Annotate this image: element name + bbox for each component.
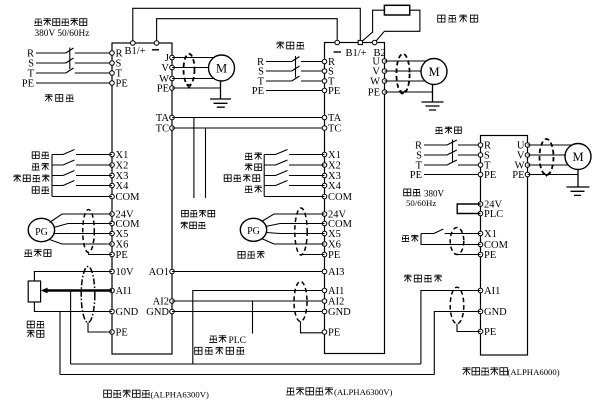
label: big roller inverter (ALPHA6300V) (286, 388, 295, 395)
shield ellipse on M2 cable (396, 54, 409, 94)
switch S21 (forward) to U2 X1 (264, 150, 324, 155)
terminal - (U1 top) (154, 41, 159, 46)
terminal AI1 (U1 left, y=290.5) (110, 288, 115, 293)
svg-text:V: V (161, 63, 169, 74)
wire: alarm contact output drop 1 (193, 118, 195, 199)
terminal V (U3 right, y=155) (525, 153, 530, 158)
terminal PE (U1 right, y=88) (170, 86, 175, 91)
bottom bus 1 (speed signal AI1) (71, 363, 421, 365)
terminal COM (U1 left, y=196.5) (110, 194, 115, 199)
terminal X1 (U1 left, y=154.5) (110, 152, 115, 157)
terminal B2 (U2 top) (372, 40, 377, 45)
inverter U3 (ALPHA6000 cloth output) outline (481, 136, 528, 356)
wire: QF2 PE straight (266, 90, 325, 92)
switch S12 (reverse) to U1 X2 (52, 160, 112, 165)
circuit breaker QF3 pole T (424, 160, 481, 165)
wire: pot wiper to U1 AI1 (thick) (45, 289, 112, 292)
switch S14 (reset) to U1 X4 (52, 181, 112, 186)
motor M3 (565, 144, 591, 170)
svg-text:X5: X5 (116, 229, 129, 240)
wire: U2 U-phase to motor M2 (385, 60, 427, 62)
wire: U1 GND to U2 GND (172, 311, 325, 313)
svg-text:PE: PE (328, 86, 340, 97)
terminal PE (U3 left, y=174.5) (478, 172, 483, 177)
svg-text:TA: TA (328, 113, 342, 124)
label: three-phase AC input (sanxiang jiaoliu shuru) (34, 19, 42, 26)
terminal PE (U1 left, y=254.5) (110, 252, 115, 257)
terminal PE (U3 left, y=254.5) (478, 252, 483, 257)
svg-text:PE: PE (484, 250, 496, 261)
svg-text:PLC: PLC (484, 209, 503, 220)
terminal B1/+ (U2 top) (358, 40, 362, 44)
svg-text:PE: PE (512, 170, 524, 181)
svg-text:PE: PE (484, 327, 496, 338)
label: circuit breaker QF1 (duanluqi) (45, 94, 53, 102)
label: alarm dry contact output line2 (dian shuchu) (181, 222, 188, 229)
terminal X2 (U1 left, y=165) (110, 163, 115, 168)
wire: PG2 to U2 X5 (266, 233, 324, 234)
label: encoder (bianmaqi) (24, 250, 32, 256)
shield drain PG1 to PE (89, 253, 113, 254)
svg-text:GND: GND (484, 307, 507, 318)
circuit breaker QF2 pole R (266, 57, 325, 62)
wire: TC bus U1 to U2 (172, 127, 325, 129)
label: reset switch (fuwei) (32, 187, 39, 194)
wire: U2 PE to motor M2 ground (385, 91, 433, 93)
terminal PE (U3 left, y=331.5) (478, 329, 483, 334)
wire: QF3 PE straight (424, 174, 481, 176)
terminal TC (U1 right, y=128) (170, 126, 175, 131)
svg-text:10V: 10V (116, 267, 135, 278)
terminal W (U3 right, y=165) (525, 163, 530, 168)
label: encoder 2 (bianmaqi) (238, 251, 245, 258)
terminal PE (U1 left, y=332) (110, 330, 115, 335)
svg-text:PG: PG (247, 226, 260, 237)
label: forward (zhengzhuan) U3 (402, 236, 410, 242)
terminal X6 (U1 left, y=244) (110, 242, 115, 247)
svg-text:PE: PE (116, 250, 128, 261)
label: small roller inverter (ALPHA6300V) (104, 390, 112, 397)
svg-text:B1/+: B1/+ (125, 46, 146, 57)
wire: PG2 to U2 24V (262, 214, 325, 222)
switch S24 (reset) to U2 X4 (264, 181, 324, 186)
terminal GND (U1 left, y=311.5) (110, 309, 115, 314)
terminal W (U1 right, y=78.5) (170, 76, 175, 81)
shield ellipse on PG1 cable (83, 210, 95, 253)
terminal X4 (U2 left, y=185.5) (322, 183, 327, 188)
svg-text:M: M (216, 61, 227, 75)
breaker QF3 tie bar (452, 140, 454, 162)
terminal S (U2 left, y=71) (322, 69, 327, 74)
terminal AI3 (U2 left, y=271.5) (322, 269, 327, 274)
shield drain to U3 PE (bottom) (457, 324, 481, 332)
circuit breaker QF3 pole S (424, 150, 481, 155)
svg-text:W: W (370, 77, 380, 88)
label: reverse switch (fanzhuan) (32, 164, 40, 170)
terminal AO1 (U1 right, y=271.5) (170, 269, 175, 274)
wire: U1 PE to motor M1 ground (172, 87, 221, 89)
terminal COM (U2 left, y=196.5) (322, 194, 327, 199)
wire: AI1 signal drop to bottom bus 1 (70, 291, 72, 365)
label: tension setting (de zhangli sheding) (195, 347, 202, 354)
svg-text:AI1: AI1 (328, 286, 344, 297)
svg-text:PE: PE (410, 170, 422, 181)
svg-text:B1/+: B1/+ (346, 48, 367, 59)
wire: S31 common to U3 COM (421, 234, 481, 245)
wire: U1 W-phase to motor M1 (172, 78, 214, 80)
wire: TA bus U1 to U2 (172, 117, 325, 119)
wire: switch common bus 1 (51, 155, 53, 197)
label: speed setting line2 (geiding) (27, 330, 35, 338)
ground symbol for M1 (210, 81, 231, 107)
label: U2 top row '- B1/+ B2' (334, 51, 342, 53)
label: braking resistor (zhidong dianzu) (438, 15, 445, 22)
terminal X3 (U2 left, y=175.5) (322, 173, 327, 178)
svg-text:X5: X5 (328, 229, 341, 240)
label: circuit breaker QF3 (duanluqi) (435, 127, 443, 133)
wire: resistor RB left lead to U2 B1/+ (361, 10, 384, 42)
svg-text:X1: X1 (116, 150, 129, 161)
terminal TC (U2 left, y=128) (322, 126, 327, 131)
shield drain to PE wire M2 (401, 90, 406, 93)
braking resistor RB (384, 5, 409, 15)
terminal AI1 (U3 left, y=290.5) (478, 288, 483, 293)
wire: pot top to U1 10V (34, 272, 112, 282)
svg-text:(ALPHA6300V): (ALPHA6300V) (151, 390, 210, 400)
label: tension inhibit switch (zhangli jinzhi) (13, 175, 21, 182)
terminal AI1 (U2 left, y=290.5) (322, 288, 327, 293)
svg-text:GND: GND (116, 307, 139, 318)
label: tension inhibit switch U2 (zhangli jinzhi) (224, 175, 231, 182)
terminal PE (U2 right, y=92) (382, 90, 387, 95)
svg-text:(ALPHA6300V): (ALPHA6300V) (334, 387, 393, 397)
shield drain PG2 to U2 PE (301, 254, 325, 256)
circuit breaker QF1 pole T (36, 68, 112, 73)
svg-text:PE: PE (157, 84, 169, 95)
svg-text:X4: X4 (328, 181, 342, 192)
wire: U3 GND from bottom bus 2 (434, 312, 480, 375)
terminal X5 (U2 left, y=233.5) (322, 231, 327, 236)
terminal X5 (U1 left, y=233.5) (110, 231, 115, 236)
shield drain pot cable to U1 PE (88, 323, 112, 333)
terminal GND (U2 left, y=311.5) (322, 309, 327, 314)
wire: common to U2 COM (264, 196, 324, 198)
svg-text:(ALPHA6000): (ALPHA6000) (508, 367, 560, 377)
wire: U1 AI2 to U2 AI2 (172, 300, 325, 302)
wire - bus: inverter U1 minus to inverter U2 minus (157, 19, 338, 43)
terminal PLC (U3 left, y=213.5) (478, 211, 483, 216)
terminal X1 (U3 left, y=233.5) (478, 231, 483, 236)
label: forward switch U2 (zhengzhuan) (245, 153, 253, 159)
svg-text:COM: COM (328, 192, 353, 203)
svg-text:PLC: PLC (229, 336, 246, 346)
wire: alarm contact output drop 2 (205, 128, 207, 198)
shield drain to U3 PE (457, 254, 481, 256)
terminal PE (U1 left, y=83) (110, 81, 115, 86)
motor M1 (209, 55, 235, 81)
svg-text:PE: PE (116, 328, 128, 339)
svg-text:PE: PE (22, 79, 34, 90)
svg-text:TA: TA (156, 113, 170, 124)
wire: U3 AI1 from bottom bus 1 (421, 291, 481, 365)
svg-text:PE: PE (368, 88, 380, 99)
wire: jumper 24V to PLC (U3) (457, 204, 480, 214)
terminal X6 (U2 left, y=244) (322, 242, 327, 247)
svg-text:X1: X1 (328, 150, 341, 161)
terminal PE (U2 left, y=90.5) (322, 88, 327, 93)
svg-text:X6: X6 (328, 240, 341, 251)
terminal PE (U3 right, y=174.5) (525, 172, 530, 177)
svg-text:PG: PG (35, 227, 48, 238)
shield ellipse on M1 cable (184, 54, 195, 85)
terminal T (U2 left, y=81) (322, 79, 327, 84)
bottom bus 2 (GND) (60, 374, 434, 376)
terminal COM (U2 left, y=223.5) (322, 221, 327, 226)
terminal 10V (U1 left, y=271.5) (110, 269, 115, 274)
terminal V (U1 right, y=67.5) (170, 65, 175, 70)
wire: switch common bus 2 (263, 155, 265, 197)
label: alarm dry contact output line1 (gaojing ganjie) (182, 210, 189, 216)
terminal S (U1 left, y=63) (110, 61, 115, 66)
label: circuit breaker QF2 (duanluqi) (276, 42, 284, 50)
shield drain to PE wire (187, 84, 192, 88)
circuit breaker QF1 pole R (36, 48, 112, 53)
wire: PG1 to U1 X6 (50, 240, 113, 245)
svg-text:GND: GND (328, 307, 351, 318)
terminal T (U3 left, y=165) (478, 163, 483, 168)
inverter U1 (ALPHA6300V small roller) outline (112, 43, 172, 354)
terminal X1 (U2 left, y=154.5) (322, 152, 327, 157)
label: cloth output speed (chubu sudu) (404, 275, 412, 283)
wire: U2 W-phase to motor M2 (385, 80, 426, 82)
terminal PE (U2 left, y=332) (322, 330, 327, 335)
terminal TA (U2 left, y=117.5) (322, 115, 327, 120)
wire: U1 V-phase to motor M1 (172, 67, 209, 69)
terminal COM (U3 left, y=244.5) (478, 242, 483, 247)
terminal X3 (U1 left, y=175.5) (110, 173, 115, 178)
wire: U3 W-phase to motor M3 (528, 164, 569, 166)
label: forward switch (zhengzhuan) (32, 152, 39, 159)
svg-text:PE: PE (484, 170, 496, 181)
motor M2 (421, 59, 447, 85)
shield drain to PE wire M3 (544, 173, 549, 176)
terminal J (U1 right, y=57.5) (170, 55, 175, 60)
wire: PG1 to U1 COM (54, 224, 113, 228)
wire: common to U1 COM (52, 196, 112, 198)
wire: PE straight through (36, 82, 112, 84)
terminal AI2 (U1 right, y=301) (170, 299, 175, 304)
label: cloth output inverter (ALPHA6000) (462, 367, 470, 375)
svg-text:R: R (116, 49, 123, 60)
wire: pot bottom to U1 GND (34, 302, 112, 312)
shield ellipse on U3 speed cable (450, 287, 464, 324)
shield ellipse on U2 analog cable (294, 282, 307, 322)
wire: U1 AO1 to U2 AI3 (172, 271, 325, 273)
terminal 24V (U1 left, y=214) (110, 212, 115, 217)
terminal 24V (U2 left, y=214) (322, 212, 327, 217)
label: speed setting line1 (sudu) (27, 321, 34, 328)
shield drain to U2 PE (301, 322, 325, 333)
terminal R (U3 left, y=145) (478, 143, 483, 148)
circuit breaker QF2 pole T (266, 76, 325, 81)
circuit breaker QF3 pole R (424, 140, 481, 145)
wire: U2 V-phase to motor M2 (385, 70, 422, 72)
breaker QF1 tie bar (69, 48, 71, 70)
switch S22 (reverse) to U2 X2 (264, 160, 324, 165)
svg-text:AI1: AI1 (116, 286, 132, 297)
svg-text:PE: PE (328, 250, 340, 261)
label: reset switch U2 (fuwei) (245, 186, 253, 192)
svg-text:50/60Hz: 50/60Hz (406, 198, 436, 208)
shield ellipse on S31 cable (450, 228, 464, 255)
wire: PG1 to U1 24V (50, 214, 113, 223)
svg-text:TC: TC (156, 124, 169, 135)
svg-text:X1: X1 (484, 229, 497, 240)
wire: U3 U-phase to motor M3 (528, 144, 572, 146)
wire: PG2 to U2 X6 (262, 239, 325, 245)
svg-text:PE: PE (252, 86, 264, 97)
svg-text:380V 50/60Hz: 380V 50/60Hz (35, 29, 90, 39)
svg-text:X2: X2 (116, 161, 129, 172)
svg-text:TC: TC (328, 124, 341, 135)
terminal - (U2 top) (335, 40, 340, 45)
svg-text:X4: X4 (116, 181, 130, 192)
svg-text:PE: PE (116, 79, 128, 90)
encoder PG2 (240, 218, 266, 241)
potentiometer RP (speed setting) (28, 281, 40, 302)
terminal COM (U1 left, y=223.5) (110, 221, 115, 226)
wire + bus (B1/+): inverter U1 B1/+ to inverter U2 B1/+ (133, 8, 360, 43)
terminal U (U2 right, y=61) (382, 59, 387, 64)
wire: U1 U-phase to motor M1 (172, 57, 214, 59)
svg-text:PE: PE (328, 328, 340, 339)
switch S31 (forward) to U3 X1 (421, 229, 481, 234)
wire: U2 AI1 from bottom bus 1 (193, 291, 325, 365)
wire: resistor RB right lead to U2 B2 (375, 10, 420, 42)
switch S13 (tension inhibit) to U1 X3 (52, 171, 112, 176)
wire: PG1 to U1 X5 (54, 233, 112, 235)
ground symbol for M2 (422, 85, 444, 111)
wire: tension setting from PLC (252, 301, 254, 334)
wire: PG2 to U2 COM (266, 224, 325, 227)
wire: GND drop to bottom bus 2 (59, 312, 61, 375)
terminal X2 (U2 left, y=165) (322, 163, 327, 168)
terminal S (U3 left, y=155) (478, 153, 483, 158)
svg-text:M: M (572, 150, 583, 164)
switch S23 (tension inhibit) to U2 X3 (264, 171, 324, 176)
svg-text:AI2: AI2 (153, 297, 169, 308)
shield ellipse on PG2 cable (295, 208, 307, 255)
wire: U3 PE to motor M3 ground (528, 174, 579, 176)
breaker QF2 tie bar (295, 56, 297, 78)
ground symbol for M3 (567, 170, 590, 196)
svg-text:X2: X2 (328, 161, 341, 172)
terminal V (U2 right, y=71) (382, 69, 387, 74)
terminal R (U1 left, y=53) (110, 51, 115, 56)
terminal W (U2 right, y=81) (382, 79, 387, 84)
shield ellipse on M3 cable (540, 139, 554, 175)
terminal GND (U3 left, y=311.5) (478, 309, 483, 314)
svg-text:AI1: AI1 (484, 286, 500, 297)
terminal AI2 (U2 left, y=301) (322, 299, 327, 304)
svg-text:COM: COM (116, 192, 141, 203)
svg-text:X6: X6 (116, 240, 129, 251)
svg-text:AO1: AO1 (149, 267, 169, 278)
encoder PG1 (28, 218, 54, 241)
terminal GND (U1 right, y=311.5) (170, 309, 175, 314)
terminal X4 (U1 left, y=185.5) (110, 183, 115, 188)
label: reverse switch U2 (fanzhuan) (245, 163, 253, 170)
terminal U (U3 right, y=145) (525, 143, 530, 148)
terminal R (U2 left, y=61.5) (322, 59, 327, 64)
switch S11 (forward) to U1 X1 (52, 150, 112, 155)
terminal PE (U2 left, y=254.5) (322, 252, 327, 257)
shield ellipse on pot cable (dash-dot) (81, 267, 95, 323)
svg-text:AI3: AI3 (328, 267, 344, 278)
terminal B1/+ (U1 top) (131, 41, 136, 46)
inverter U2 (ALPHA6300V big roller) outline (325, 43, 385, 354)
label: three-phase 380V (sanxiang) (404, 189, 411, 196)
svg-text:M: M (428, 65, 439, 79)
wiper arrowhead (41, 288, 48, 294)
svg-text:GND: GND (146, 307, 169, 318)
label: from PLC (laizi PLC) (209, 336, 217, 342)
circuit breaker QF1 pole S (36, 58, 112, 63)
terminal T (U1 left, y=73) (110, 71, 115, 76)
svg-text:AI2: AI2 (328, 297, 344, 308)
circuit breaker QF2 pole S (266, 66, 325, 71)
terminal TA (U1 right, y=117.5) (170, 115, 175, 120)
terminal 24V (U3 left, y=204) (478, 202, 483, 207)
wire: U3 V-phase to motor M3 (528, 154, 566, 156)
